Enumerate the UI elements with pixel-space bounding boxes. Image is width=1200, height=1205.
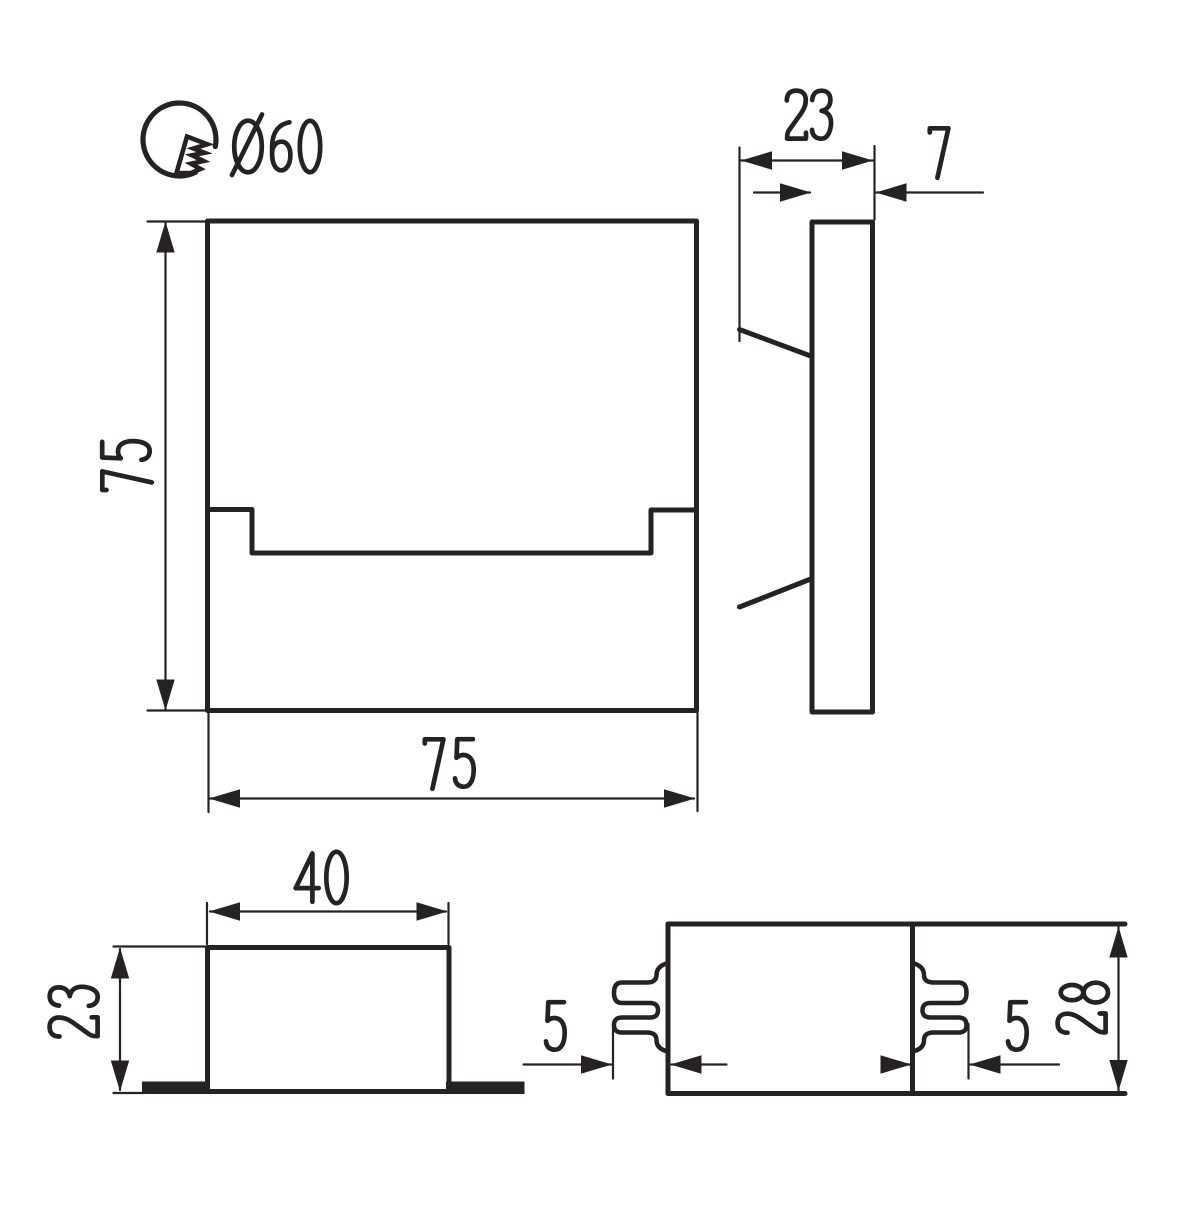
arrow 23 up [111,948,129,979]
arrow 5R pointing right [881,1055,912,1073]
divider wall [910,924,915,1094]
extension line top-left [148,220,208,222]
dimension line 5 left outer [524,1063,612,1065]
dimension line 23 [741,159,873,161]
dimension line 40 [210,910,446,912]
BOTTOM-LEFT VIEW [208,948,450,1092]
arrow left [209,789,240,807]
dimension line 7 left part [754,191,810,193]
dimension line 28 [1117,927,1119,1091]
arrow 23 right [842,151,873,169]
right spring clip [913,963,967,1052]
front recess notch [208,510,697,554]
arrow 7 pointing left [876,183,907,201]
dimension line 5 right outer [971,1063,1060,1065]
arrow 23 down [111,1061,129,1092]
extension line below-left [207,713,209,812]
hole-saw icon: jagged wedge [177,137,208,174]
dimension line 5 right inner [882,1063,911,1065]
label 23 rotated [50,987,98,1037]
extension line 40 left [206,903,208,944]
label 28 rotated [1058,983,1108,1033]
label 75 vertical [102,441,152,490]
housing box outline [208,948,450,1092]
bottom edge [668,1091,1125,1096]
arrow 5R pointing left [970,1055,1001,1073]
FRONT VIEW [208,221,697,711]
arrow 5L pointing left [671,1055,702,1073]
arrow 23 left [741,151,772,169]
dimension line 23 vertical [119,949,121,1090]
extension line 5 left [612,1024,614,1079]
top edge [668,922,1125,927]
dimension line 75 horizontal [210,797,694,799]
extension line 23 bottom [114,1092,145,1094]
extension line left of 23 [738,148,740,342]
arrow 28 up [1109,927,1127,958]
arrow 5L pointing right [581,1055,612,1073]
BOTTOM-RIGHT VIEW [668,924,1125,1094]
arrow 28 down [1109,1060,1127,1091]
extension line right of 23 [873,146,875,220]
arrow down [156,680,174,711]
upper mounting clip [740,330,813,357]
extension line 5 right [967,1024,969,1079]
label 75 horizontal [425,739,474,789]
label 5 left [546,1002,565,1050]
dimension line 5 left inner [672,1063,727,1065]
arrow right [664,789,695,807]
left spring clip [614,963,668,1052]
label 40 [296,852,347,903]
left bezel flange [142,1082,210,1095]
label 5 right [1008,1002,1027,1050]
arrow up [156,222,174,253]
label Ø60 [232,115,320,176]
extension line bottom-left [148,709,208,711]
extension line 40 right [447,903,449,944]
arrow 40 left [209,902,240,920]
front panel outline [208,221,697,711]
label 7 [930,128,949,178]
left edge [666,924,671,1094]
SIDE VIEW [740,222,873,712]
hole-saw icon: circle with serrated cut [143,103,216,176]
right bezel flange [446,1082,525,1095]
dimension line 75 vertical [164,223,166,709]
label 23 top [787,91,831,139]
lower mounting clip [740,579,813,608]
arrow 40 right [417,902,448,920]
extension line below-right [696,713,698,811]
side plate outline [812,222,873,712]
arrow 7 pointing right [780,183,811,201]
extension line 23 top [114,945,206,947]
dimension line 7 right part [876,191,983,193]
